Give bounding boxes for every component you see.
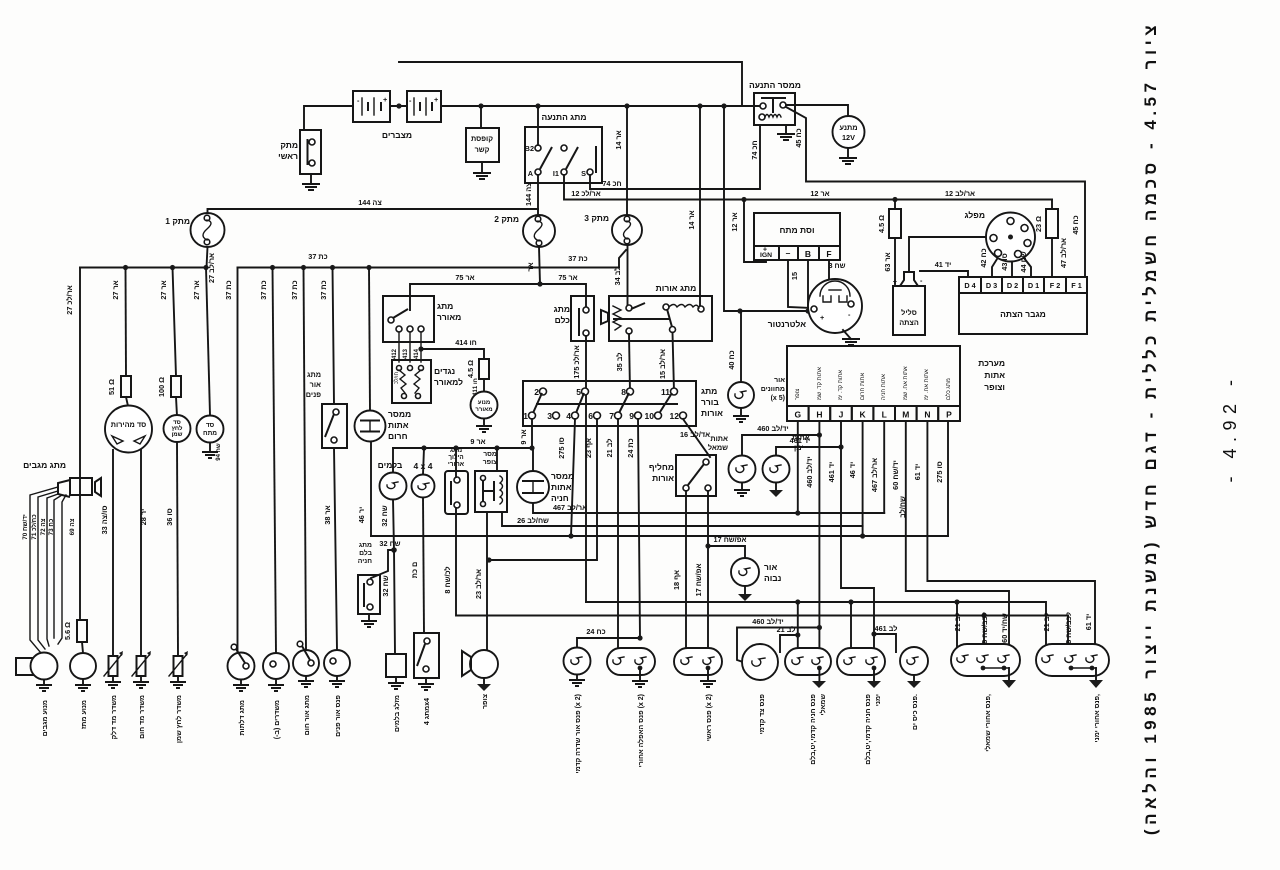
wire IGN drop	[744, 200, 766, 263]
signal system box (מערכת אתות וצופר)	[787, 346, 1005, 421]
svg-text:4: 4	[566, 411, 571, 421]
node 100ohm tap	[170, 265, 175, 270]
svg-text:סו 275: סו 275	[935, 461, 944, 483]
resistor 51 ohm	[107, 376, 131, 406]
front side lamp circle2	[742, 644, 778, 680]
svg-text:חו 414: חו 414	[455, 338, 477, 347]
svg-text:מערכת: מערכת	[978, 358, 1005, 368]
wire hazard to line46	[370, 442, 372, 537]
svg-text:שח/יד 60: שח/יד 60	[1000, 613, 1009, 643]
ground oval2	[700, 668, 716, 687]
svg-text:צה 144: צה 144	[358, 198, 382, 207]
wire 23ohm drop to F2	[1051, 200, 1053, 210]
svg-text:יר 28: יר 28	[139, 509, 148, 526]
svg-text:מתג: מתג	[307, 370, 321, 379]
wire horn relay coil to line26	[502, 512, 863, 526]
svg-text:מתג כלם: מתג כלם	[945, 378, 952, 400]
wire term4 so275 drop	[571, 419, 575, 536]
svg-text:נגדים: נגדים	[434, 366, 455, 376]
svg-text:מתג מגבים: מתג מגבים	[23, 460, 66, 470]
svg-text:שמאלי: שמאלי	[819, 694, 827, 716]
svg-text:ממסר: ממסר	[388, 409, 411, 419]
svg-text:משדר לחץ שמן: משדר לחץ שמן	[175, 695, 183, 743]
wire top bus	[399, 62, 742, 106]
wire high beam lamp feed	[708, 546, 745, 558]
svg-text:לב 21: לב 21	[953, 613, 962, 632]
volt gauge (סד מתח)	[197, 416, 224, 443]
svg-text:מתק 1: מתק 1	[165, 216, 190, 226]
svg-text:מתק 3: מתק 3	[584, 213, 609, 223]
node IGN tap	[741, 197, 746, 202]
node side lamp right link	[871, 631, 876, 636]
svg-text:כח 42: כח 42	[979, 248, 988, 267]
node ignition switch tap	[535, 103, 540, 108]
ground stop box	[388, 677, 404, 689]
svg-text:פנס ראשי (x 2): פנס ראשי (x 2)	[706, 694, 713, 741]
alternator (אלטרנטור)	[768, 279, 862, 333]
svg-text:B2: B2	[525, 144, 534, 153]
wire right signal lamp feed	[776, 447, 841, 455]
fan motor (מנוע מאורר)	[471, 379, 498, 419]
svg-text:לכב/שח 8: לכב/שח 8	[980, 612, 989, 644]
svg-text:מנוע: מנוע	[478, 400, 490, 406]
interior lamp circle	[324, 650, 350, 676]
wire battery link	[390, 105, 407, 107]
stop connector box	[386, 654, 406, 677]
headlamp oval2	[674, 648, 722, 675]
ground starter motor	[839, 148, 857, 164]
svg-text:וצופר: וצופר	[984, 382, 1005, 392]
svg-text:אר 38: אר 38	[323, 505, 332, 524]
wire B2 feed	[537, 106, 539, 145]
node kt24	[637, 635, 642, 640]
main switch S1 (מתק ראשי)	[278, 130, 321, 174]
svg-text:8: 8	[621, 387, 626, 397]
node charge lamp tap	[737, 308, 742, 313]
svg-text:יד/לב 460: יד/לב 460	[805, 456, 814, 487]
svg-text:ממסר התנעה: ממסר התנעה	[749, 80, 801, 90]
wire hu414 to fan motor	[421, 349, 484, 359]
svg-text:לב 34: לב 34	[613, 267, 622, 286]
ground alternator	[842, 330, 860, 345]
interior light switch (מתג אור פנים)	[306, 370, 347, 448]
svg-text:F 2: F 2	[1050, 281, 1061, 290]
left signal lamp (אתות שמאל)	[708, 434, 756, 483]
svg-text:11: 11	[661, 387, 670, 397]
wire P drop	[947, 421, 949, 536]
svg-text:4.5 Ω: 4.5 Ω	[877, 215, 886, 233]
wire hazard feed	[369, 268, 370, 412]
svg-text:יד/שח 60: יד/שח 60	[891, 460, 900, 490]
svg-text:כח 24: כח 24	[586, 627, 605, 636]
svg-text:אר/לב 23: אר/לב 23	[474, 569, 483, 599]
svg-text:פנס כיס ים.: פנס כיס ים.	[912, 694, 919, 730]
svg-text:9: 9	[629, 411, 634, 421]
node hazard tap	[366, 265, 371, 270]
ground fuel sender	[105, 676, 121, 688]
wire main battery bus	[441, 105, 763, 107]
resistor 4.5 fan	[479, 359, 489, 379]
svg-text:מתק: מתק	[280, 140, 298, 150]
wire park drop B	[850, 602, 852, 655]
svg-text:אתות אח. שמ: אתות אח. שמ	[903, 366, 909, 400]
wire dimmer 17 drop	[707, 491, 709, 655]
wire kt37 w3	[304, 268, 307, 652]
svg-text:הצתה: הצתה	[899, 318, 919, 327]
wire 4x4 drop	[423, 498, 424, 634]
node H 627 tap	[817, 625, 822, 630]
svg-text:מנוע מגבים: מנוע מגבים	[42, 700, 49, 736]
svg-text:פנס אור שדרה קדמי (x 2): פנס אור שדרה קדמי (x 2)	[575, 694, 582, 773]
node junction box tap	[478, 103, 483, 108]
svg-text:שמן: שמן	[172, 432, 183, 438]
ground oval5	[1002, 668, 1016, 688]
svg-text:D 1: D 1	[1028, 281, 1039, 290]
svg-text:שח 32: שח 32	[381, 575, 390, 596]
svg-text:אד/לב 16: אד/לב 16	[680, 430, 710, 439]
svg-text:ראשי: ראשי	[278, 151, 298, 161]
oil gauge (סד לחץ שמן)	[164, 415, 191, 656]
svg-text:D 3: D 3	[986, 281, 997, 290]
svg-text:אר/לכ 175: אר/לכ 175	[572, 345, 581, 379]
handbrake switch (מתג בלם חניה)	[358, 542, 394, 614]
svg-text:S: S	[581, 169, 586, 178]
wire 144 link	[208, 209, 539, 213]
svg-text:יד 61: יד 61	[1084, 614, 1093, 631]
svg-text:אתות חרום: אתות חרום	[860, 373, 866, 400]
svg-text:שמאל: שמאל	[708, 443, 728, 452]
svg-text:אר/לכ 12: אר/לכ 12	[571, 189, 600, 198]
resistor 4.5 ohm coil	[877, 200, 901, 285]
svg-text:מתג: מתג	[359, 542, 372, 549]
front marker lamp circle1	[564, 648, 591, 675]
svg-text:אר 9: אר 9	[470, 437, 485, 446]
svg-text:I1: I1	[553, 169, 559, 178]
svg-text:M: M	[902, 410, 909, 420]
wire ar14 to breaker3	[626, 106, 628, 215]
wire brake sw drop	[393, 500, 394, 551]
svg-text:צופר: צופר	[483, 459, 498, 466]
svg-text:2: 2	[534, 387, 539, 397]
wire distributor to D3	[992, 259, 997, 277]
svg-text:כת 37: כת 37	[568, 254, 587, 263]
ground park light switch	[298, 676, 314, 687]
svg-text:G: G	[794, 410, 801, 420]
ground oval4	[867, 668, 881, 688]
wire distributor to D2	[1011, 262, 1013, 278]
svg-text:יר 46: יר 46	[357, 507, 366, 524]
svg-text:אר/לב 47: אר/לב 47	[1059, 238, 1068, 268]
svg-text:יד 46: יד 46	[848, 462, 857, 479]
ar9 bus	[393, 448, 533, 470]
ground volt gauge	[202, 443, 222, 461]
svg-text:+: +	[893, 277, 897, 286]
svg-text:אפ/שח 17: אפ/שח 17	[694, 564, 703, 597]
svg-text:מתג 4x4: מתג 4x4	[424, 698, 431, 725]
wire reverse drop line8	[456, 508, 1068, 616]
node kt37 tap3	[301, 265, 306, 270]
wire horn drop	[486, 512, 488, 651]
svg-text:אר/לב 15: אר/לב 15	[658, 349, 667, 379]
ground charge lamp	[733, 408, 749, 422]
door switch circle	[228, 644, 255, 679]
side lamp circle3	[900, 647, 928, 675]
svg-text:כח/לכ 71: כח/לכ 71	[30, 514, 38, 540]
ground interior lamp	[329, 676, 345, 687]
ground oval6	[1089, 668, 1103, 688]
resistor 5.6 ohm	[63, 620, 87, 653]
headlight switch (מתג אורות)	[601, 283, 712, 341]
svg-text:פנס האפלה אחורי (x 2): פנס האפלה אחורי (x 2)	[637, 694, 645, 767]
wire K drop to hazard line	[862, 421, 864, 536]
wire reverse rear left drop	[983, 616, 985, 653]
svg-text:לכ/שח 8: לכ/שח 8	[443, 566, 452, 593]
battery G2	[407, 91, 441, 122]
svg-text:A: A	[528, 169, 534, 178]
node H left lamp tap	[817, 432, 822, 437]
wire term12 to dimmer	[683, 419, 710, 457]
node coil resistor tap	[892, 197, 897, 202]
svg-text:אר/לכ 27: אר/לכ 27	[65, 285, 74, 314]
svg-text:4.5 Ω: 4.5 Ω	[466, 360, 475, 378]
svg-text:F 1: F 1	[1071, 281, 1082, 290]
wire term1 to ar9 bus	[531, 419, 533, 448]
svg-text:שח/לב 26: שח/לב 26	[517, 516, 549, 525]
wire side lamp link	[780, 635, 798, 652]
svg-text:אר 27: אר 27	[159, 280, 168, 299]
fuel sender (variable resistor)	[104, 651, 123, 676]
svg-text:+: +	[434, 95, 438, 104]
svg-text:H: H	[816, 410, 822, 420]
wire washer drop	[79, 268, 81, 621]
svg-text:שח 44: שח 44	[1019, 251, 1028, 272]
wire left signal lamp feed	[742, 435, 819, 455]
line 21 to rear	[586, 602, 1046, 652]
distributor (מפלג)	[965, 210, 1035, 262]
svg-text:K: K	[860, 410, 867, 420]
sender circle 2	[263, 653, 289, 679]
svg-text:מאורר: מאורר	[475, 407, 492, 413]
charge indicator lamp (אור מחוונים)	[728, 311, 785, 408]
wires fan resistors	[398, 332, 400, 362]
brake light switch (מתג כלם)	[554, 296, 594, 341]
svg-text:P: P	[946, 410, 952, 420]
wire resistor to F2	[1051, 238, 1053, 277]
ignition amplifier (מגבר הצתה)	[959, 277, 1087, 334]
left bus or27	[80, 267, 206, 269]
wire battery B+ drop to alternator	[724, 106, 818, 311]
svg-text:חניה: חניה	[551, 493, 569, 503]
wires wiper bundle	[30, 487, 58, 653]
svg-text:צופר: צופר	[795, 389, 801, 400]
svg-text:ם כת: ם כת	[410, 562, 419, 579]
ground horn	[477, 678, 491, 691]
svg-text:צופר: צופר	[482, 694, 489, 709]
svg-text:אתות קד. שמ: אתות קד. שמ	[817, 367, 823, 400]
svg-text:B: B	[805, 249, 811, 259]
svg-text:אורות: אורות	[701, 408, 723, 418]
node 414 tap	[418, 346, 423, 351]
svg-text:יד/לב 460: יד/לב 460	[752, 617, 783, 626]
svg-text:מתג אורות: מתג אורות	[656, 283, 697, 293]
svg-text:מגבר הצתה: מגבר הצתה	[1000, 309, 1046, 319]
svg-text:מצברים: מצברים	[382, 130, 412, 140]
svg-text:לכב/שח 8: לכב/שח 8	[1064, 612, 1073, 644]
svg-text:סו 43: סו 43	[1000, 253, 1009, 270]
wire breaker1 down	[207, 247, 208, 268]
node high beam tap	[705, 543, 710, 548]
svg-text:51 Ω: 51 Ω	[107, 379, 116, 395]
svg-text:מתג דלתות: מתג דלתות	[238, 700, 246, 736]
reverse switch (מתג הילוך אחורי)	[445, 447, 468, 514]
svg-text:שח/לב: שח/לב	[898, 496, 907, 518]
svg-text:פנס חניה קדמי,יט,בלם: פנס חניה קדמי,יט,בלם	[864, 694, 872, 765]
svg-text:+: +	[763, 245, 767, 254]
ignition coil (סליל הצתה)	[893, 272, 925, 335]
svg-text:משדר מד דלק: משדר מד דלק	[110, 695, 118, 739]
node J right lamp tap	[838, 444, 843, 449]
svg-text:מתג התנעה: מתג התנעה	[541, 112, 586, 122]
svg-text:412: 412	[392, 348, 398, 359]
wire lb35 to term8	[629, 334, 630, 392]
node term1 tap	[529, 445, 534, 450]
svg-text:למאורר: למאורר	[434, 377, 463, 387]
washer motor (מנוע מתז)	[70, 653, 96, 679]
svg-text:אתות: אתות	[551, 482, 572, 492]
svg-text:F: F	[826, 249, 831, 259]
svg-text:אפ/שח 17: אפ/שח 17	[714, 535, 747, 544]
fan bus ar75	[410, 284, 586, 310]
svg-text:אר 14: אר 14	[614, 130, 623, 149]
wire rear left 21 drop	[956, 602, 958, 652]
svg-text:אר 9: אר 9	[519, 429, 528, 444]
svg-text:מתנע: מתנע	[839, 123, 857, 132]
node K joins line	[860, 533, 865, 538]
svg-text:מתק 2: מתק 2	[494, 214, 519, 224]
light selector switch (מתג בורר אורות)	[523, 381, 723, 426]
node light switch feed tap	[697, 103, 702, 108]
wire term6 af23 drop	[489, 419, 597, 560]
node kt37 tap4	[330, 265, 335, 270]
svg-text:סליל: סליל	[901, 308, 917, 317]
resistor 100 ohm	[157, 376, 181, 416]
svg-text:קופסת: קופסת	[471, 134, 493, 143]
svg-text:N: N	[924, 410, 930, 420]
svg-text:שח 3: שח 3	[828, 261, 845, 270]
svg-text:משדר מד חום: משדר מד חום	[139, 695, 146, 739]
ground main switch	[302, 174, 320, 190]
svg-text:אור: אור	[310, 380, 321, 389]
svg-text:כת 37: כת 37	[319, 280, 328, 299]
svg-text:סד מהירות: סד מהירות	[111, 420, 146, 429]
svg-text:413: 413	[403, 348, 409, 359]
svg-text:אור: אור	[764, 562, 777, 572]
voltage regulator (וסת מתח)	[754, 213, 840, 260]
svg-text:ימן: ימן	[794, 443, 804, 452]
wire coil HT to distributor	[909, 237, 1008, 272]
wire N drop	[927, 421, 1095, 650]
ground door switch	[233, 680, 249, 692]
svg-text:לב 35: לב 35	[615, 353, 624, 372]
svg-text:כת 37: כת 37	[224, 280, 233, 299]
wire 51ohm drop	[125, 268, 128, 377]
ground high beam lamp	[738, 586, 752, 601]
wire flasher to line467	[533, 503, 884, 513]
svg-text:D 2: D 2	[1007, 281, 1018, 290]
wire brake to stop box	[394, 550, 395, 654]
wire minus to alternator	[788, 260, 812, 308]
4x4 switch circle	[412, 448, 435, 498]
ground oval3	[812, 668, 826, 688]
svg-text:לב 461: לב 461	[875, 624, 898, 633]
hazard line 46	[371, 535, 948, 537]
wire kt37 w2	[273, 268, 277, 655]
node 51ohm tap	[123, 265, 128, 270]
svg-text:אר 27: אר 27	[111, 280, 120, 299]
wire M drop	[906, 421, 1009, 650]
4x4 switch box (מתג 4x4)	[414, 633, 439, 678]
node front right park tap	[795, 599, 800, 604]
svg-text:אר 12: אר 12	[730, 212, 739, 231]
node fan bus	[537, 281, 542, 286]
wire term7 lb21 drop	[617, 419, 619, 655]
svg-text:אתות חניה: אתות חניה	[881, 374, 887, 400]
ground wiper motor	[36, 680, 52, 692]
svg-text:5.6 Ω: 5.6 Ω	[63, 622, 72, 640]
wire voltmeter drop	[206, 268, 210, 416]
svg-text:אתות אח. ימ: אתות אח. ימ	[924, 369, 930, 400]
breaker 3 (מתק 3)	[584, 213, 642, 245]
high beam lamp (אור נבוה)	[731, 558, 781, 586]
line kt24 branch	[577, 638, 640, 648]
svg-text:שח 32: שח 32	[379, 539, 400, 548]
wiper motor (מנוע מגבים)	[16, 653, 58, 680]
svg-text:מפלג: מפלג	[965, 210, 985, 220]
wire 175 drop	[585, 336, 587, 602]
temp sender (variable resistor)	[132, 651, 151, 676]
node kt37 tap2	[270, 265, 275, 270]
junction box (קופסת קשר)	[466, 106, 499, 162]
svg-text:D 4: D 4	[964, 281, 976, 290]
svg-text:מזלג בלמים: מזלג בלמים	[393, 695, 401, 732]
svg-text:קשר: קשר	[475, 145, 490, 154]
node term4 joins line	[568, 533, 573, 538]
svg-text:מתג: מתג	[701, 386, 717, 396]
wire kt37 w4 to interior light switch	[333, 268, 335, 405]
breaker 1 (מתק 1)	[165, 213, 224, 247]
wire 627 sidelink	[737, 628, 819, 663]
wire distributor to D1	[1024, 258, 1031, 277]
svg-text:5: 5	[576, 387, 581, 397]
hazard flasher (ממסר אתות חרום)	[355, 409, 412, 442]
ground circle3	[907, 675, 921, 688]
svg-text:כת 37: כת 37	[308, 252, 327, 261]
svg-text:אור: אור	[774, 377, 785, 384]
svg-text:6: 6	[588, 411, 593, 421]
svg-text:בלמים: בלמים	[378, 460, 403, 470]
svg-text:אתות קד. ימ: אתות קד. ימ	[838, 370, 844, 400]
svg-text:צה 69: צה 69	[69, 518, 76, 535]
svg-text:אר 75: אר 75	[558, 273, 577, 282]
svg-text:+: +	[383, 95, 387, 104]
wire 100ohm drop	[173, 268, 177, 377]
svg-text:מתג: מתג	[437, 301, 453, 311]
wire dimmer 18 drop	[685, 491, 687, 655]
svg-text:אף 23: אף 23	[584, 438, 593, 458]
wire yad 41 to D4	[920, 271, 968, 277]
svg-text:מחליף: מחליף	[649, 462, 674, 472]
ground oil sender	[170, 676, 186, 688]
